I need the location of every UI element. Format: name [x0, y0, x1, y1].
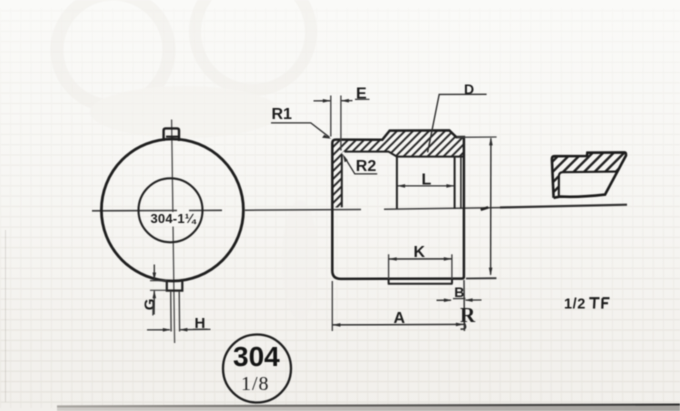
- top tab: [164, 128, 179, 141]
- left page fold shadow: [5, 230, 7, 402]
- dimension E extension lines: [330, 96, 332, 137]
- hex boss bottom edge: [388, 279, 453, 284]
- svg-text:B: B: [454, 284, 464, 300]
- dimension B arrows: [437, 299, 451, 301]
- dimension A: [332, 323, 464, 326]
- A left extension line: [331, 281, 333, 331]
- thread note glyph T: [589, 298, 599, 308]
- D leader: [428, 94, 487, 152]
- detail inner ceiling: [559, 172, 617, 196]
- chamfer line: [460, 157, 462, 209]
- dimension E arrows: [314, 100, 331, 102]
- centerline through section to right: [384, 208, 500, 210]
- bore end face: [396, 157, 398, 209]
- section outer profile: [332, 130, 464, 279]
- dimension K extension lines: [388, 254, 390, 279]
- R callout tail: [461, 323, 466, 330]
- svg-text:1/2: 1/2: [564, 296, 586, 312]
- section hatch fill: [332, 130, 464, 207]
- R2 leader: [344, 157, 377, 174]
- R1 leader: [271, 123, 330, 137]
- thread line: [454, 157, 456, 209]
- label E underline: [355, 98, 370, 100]
- stamp circle: [223, 335, 291, 403]
- svg-text:L: L: [422, 171, 432, 188]
- svg-text:1/8: 1/8: [241, 373, 270, 395]
- B right extension line: [463, 280, 465, 331]
- svg-text:A: A: [394, 310, 406, 327]
- centerline under detail view: [500, 205, 627, 208]
- top tab inner bar: [166, 136, 179, 138]
- bore ceiling line: [397, 156, 464, 158]
- svg-text:K: K: [414, 244, 426, 261]
- dimension K: [389, 258, 452, 260]
- horizontal centerline through circle right part: [189, 209, 222, 211]
- vertical centerline: [172, 120, 175, 344]
- label H underline: [193, 328, 208, 330]
- bottom scan shadow fill: [57, 405, 680, 411]
- bottom scan dark line: [57, 405, 680, 407]
- svg-text:304-1¼: 304-1¼: [151, 211, 197, 226]
- outer circle: [101, 139, 243, 281]
- H extension lines: [170, 291, 172, 332]
- thread relief line: [345, 152, 397, 157]
- dimension G ticks: [150, 280, 167, 282]
- dimension G arrows: [153, 265, 155, 281]
- thread note glyph F: [602, 298, 609, 308]
- horizontal centerline through circle left part: [92, 210, 177, 212]
- svg-text:304: 304: [233, 341, 280, 372]
- inner left wall line: [341, 154, 343, 207]
- inner circle: [139, 178, 203, 242]
- svg-text:G: G: [142, 299, 159, 311]
- right vertical dimension extension bottom: [466, 277, 496, 279]
- label G shelf: [152, 302, 154, 316]
- right vertical dimension extension top: [457, 136, 497, 138]
- bottom tab: [167, 279, 183, 291]
- tick on centerline: [481, 207, 489, 209]
- label B underline: [453, 298, 466, 300]
- svg-text:R: R: [460, 303, 476, 327]
- right vertical dimension line: [490, 138, 492, 275]
- dimension H line and arrows: [147, 329, 170, 331]
- centerline between views: [245, 209, 361, 212]
- label 304-1 1/4 backing: [167, 212, 181, 227]
- svg-text:R1: R1: [272, 106, 293, 123]
- detail outer profile: [552, 152, 626, 197]
- svg-text:R2: R2: [356, 158, 377, 175]
- detail hatch fill: [552, 152, 626, 197]
- dimension L: [397, 185, 454, 187]
